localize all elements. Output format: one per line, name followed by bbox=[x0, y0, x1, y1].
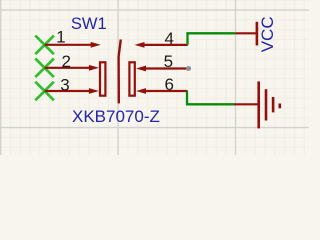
svg-text:6: 6 bbox=[164, 75, 173, 94]
grid minor lines bbox=[0, 0, 309, 155]
pin 3 bbox=[45, 75, 99, 94]
svg-text:VCC: VCC bbox=[258, 16, 277, 52]
svg-text:1: 1 bbox=[56, 28, 65, 47]
svg-text:XKB7070-Z: XKB7070-Z bbox=[72, 107, 160, 126]
svg-text:2: 2 bbox=[61, 52, 70, 71]
switch lever (common pole) bbox=[119, 40, 121, 104]
wire pin6 to GND bbox=[187, 91, 234, 104]
no-connect flag X on pin 1 bbox=[35, 36, 54, 55]
no-connect flag X on pin 2 bbox=[35, 59, 54, 78]
pin 2 bbox=[45, 52, 99, 71]
pin 1 bbox=[45, 28, 101, 48]
switch right contact rectangle bbox=[129, 62, 134, 95]
svg-text:4: 4 bbox=[164, 29, 173, 48]
ground symbol bbox=[234, 81, 280, 128]
svg-text:SW1: SW1 bbox=[71, 15, 107, 33]
VCC power port bbox=[235, 16, 276, 52]
unconnected pin 5 dot bbox=[186, 66, 191, 71]
svg-text:3: 3 bbox=[60, 75, 69, 94]
switch left contact rectangle bbox=[100, 62, 105, 95]
grid major lines bbox=[0, 0, 309, 155]
pin 5 bbox=[136, 52, 188, 72]
no-connect flag X on pin 3 bbox=[35, 82, 54, 101]
svg-text:5: 5 bbox=[164, 52, 173, 71]
pin 4 bbox=[135, 29, 188, 48]
wire pin4 to VCC bbox=[188, 33, 236, 45]
pin 6 bbox=[136, 75, 188, 94]
